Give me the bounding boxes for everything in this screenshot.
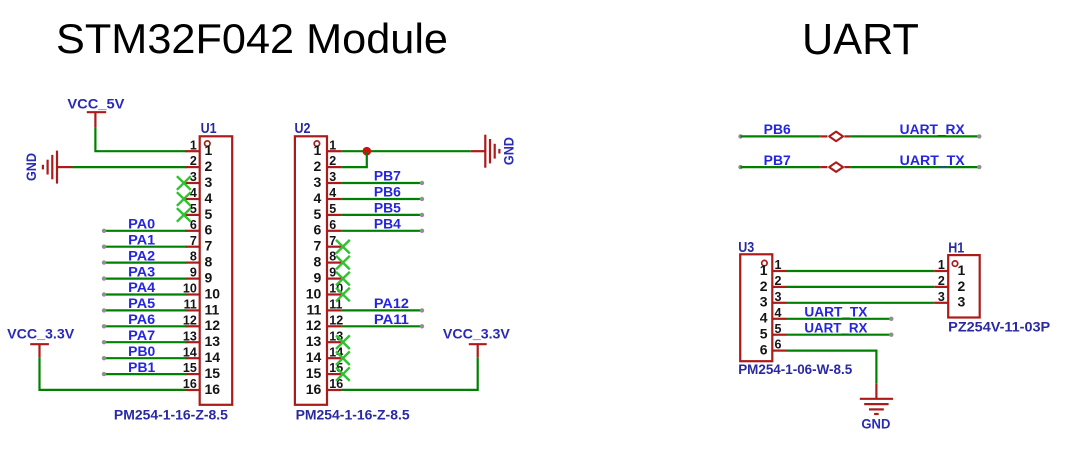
no-connect X on U1 pin 4 xyxy=(177,192,191,206)
connector U3 body xyxy=(740,254,772,361)
svg-text:2: 2 xyxy=(958,278,966,294)
U2 pin 2 xyxy=(314,154,342,174)
svg-text:PM254-1-06-W-8.5: PM254-1-06-W-8.5 xyxy=(738,362,853,377)
svg-text:7: 7 xyxy=(190,234,197,248)
U3 pin 2 xyxy=(760,274,787,294)
wire U2 pin 2 to junction xyxy=(341,151,366,167)
svg-text:12: 12 xyxy=(205,317,221,333)
U1 pin 7 xyxy=(185,234,212,254)
no-connect X on U2 pin 15 xyxy=(336,367,350,381)
svg-text:U2: U2 xyxy=(295,120,311,137)
wire VCC_5V to U1 pin 1 xyxy=(95,127,186,151)
U2 pin 5 xyxy=(314,202,342,222)
U1 pin 12 xyxy=(183,313,220,333)
wire U3 pin 1 to H1 pin 1 xyxy=(787,270,935,272)
svg-text:PA0: PA0 xyxy=(128,217,155,232)
wire net PA1 to U1 pin 7 xyxy=(102,245,187,249)
svg-text:VCC_3.3V: VCC_3.3V xyxy=(443,327,510,342)
net-tie diamond PB7/UART_TX xyxy=(820,162,850,172)
wire net PB1 to U1 pin 15 xyxy=(102,372,187,376)
svg-text:1: 1 xyxy=(958,262,966,278)
svg-text:GND: GND xyxy=(501,137,516,165)
svg-text:6: 6 xyxy=(329,218,336,232)
U2 pin 7 xyxy=(314,234,342,254)
U2 pin 3 xyxy=(314,170,342,190)
svg-text:5: 5 xyxy=(205,206,213,222)
U1 pin 3 xyxy=(185,170,212,190)
svg-text:PB7: PB7 xyxy=(374,169,401,184)
svg-text:STM32F042 Module: STM32F042 Module xyxy=(56,15,448,62)
U1 pin 15 xyxy=(183,361,220,381)
U1 pin 11 xyxy=(184,298,220,318)
svg-text:10: 10 xyxy=(306,285,322,301)
wire net PB4 from U2 pin 6 xyxy=(341,229,424,233)
svg-text:PA7: PA7 xyxy=(128,328,155,343)
U1 pin 4 xyxy=(185,186,212,206)
no-connect X on U2 pin 9 xyxy=(336,272,350,286)
svg-text:9: 9 xyxy=(314,270,322,286)
svg-text:PM254-1-16-Z-8.5: PM254-1-16-Z-8.5 xyxy=(114,408,229,423)
U1 pin 1 indicator circle xyxy=(205,141,210,146)
wire net PB0 to U1 pin 14 xyxy=(102,356,187,360)
svg-text:PB1: PB1 xyxy=(128,360,156,375)
no-connect X on U2 pin 7 xyxy=(336,240,350,254)
svg-text:8: 8 xyxy=(205,254,213,270)
svg-text:PA6: PA6 xyxy=(128,312,155,327)
U3 pin 1 indicator circle xyxy=(762,260,767,265)
svg-text:GND: GND xyxy=(24,153,39,181)
U2 pin 12 xyxy=(306,313,344,333)
svg-text:UART_TX: UART_TX xyxy=(900,153,965,168)
U2 pin 13 xyxy=(306,329,344,349)
svg-text:3: 3 xyxy=(760,294,768,310)
svg-text:3: 3 xyxy=(314,174,322,190)
wire net UART_RX right segment xyxy=(850,134,981,138)
svg-text:5: 5 xyxy=(329,202,336,216)
svg-text:PM254-1-16-Z-8.5: PM254-1-16-Z-8.5 xyxy=(296,408,411,423)
svg-text:PB0: PB0 xyxy=(128,344,155,359)
H1 pin 1 indicator circle xyxy=(952,261,957,266)
svg-text:UART_TX: UART_TX xyxy=(804,305,867,320)
svg-text:1: 1 xyxy=(938,258,945,272)
svg-text:16: 16 xyxy=(205,381,221,397)
svg-text:PB5: PB5 xyxy=(374,201,402,216)
svg-text:2: 2 xyxy=(314,158,322,174)
wire net PA12 from U2 pin 11 xyxy=(341,308,424,312)
power symbol VCC_5V xyxy=(67,96,124,127)
svg-text:6: 6 xyxy=(760,342,768,358)
svg-text:16: 16 xyxy=(306,381,322,397)
wire net PB5 from U2 pin 5 xyxy=(341,213,424,217)
svg-text:PA12: PA12 xyxy=(374,296,409,311)
wire net PB7 left segment xyxy=(738,165,820,169)
U2 pin 9 xyxy=(314,266,342,286)
wire net PA5 to U1 pin 11 xyxy=(102,308,187,312)
svg-text:UART_RX: UART_RX xyxy=(804,320,867,335)
U2 pin 14 xyxy=(306,345,344,365)
svg-text:VCC_3.3V: VCC_3.3V xyxy=(7,327,74,342)
svg-text:14: 14 xyxy=(205,349,221,365)
svg-text:2: 2 xyxy=(205,158,213,174)
svg-text:3: 3 xyxy=(775,290,782,304)
connector U2 body xyxy=(295,136,327,405)
svg-text:6: 6 xyxy=(205,222,213,238)
svg-text:1: 1 xyxy=(329,138,336,152)
wire net PA4 to U1 pin 10 xyxy=(102,292,187,296)
U2 pin 4 xyxy=(314,186,342,206)
svg-text:4: 4 xyxy=(775,306,782,320)
power symbol VCC_3.3V right xyxy=(443,327,510,358)
H1 pin 2 xyxy=(934,274,965,294)
net-tie diamond PB6/UART_RX xyxy=(820,132,850,142)
svg-text:9: 9 xyxy=(205,270,213,286)
svg-text:2: 2 xyxy=(190,154,197,168)
wire VCC_3.3V to U1 pin 16 xyxy=(40,358,187,390)
U1 pin 8 xyxy=(185,250,212,270)
svg-text:6: 6 xyxy=(314,222,322,238)
U2 pin 8 xyxy=(314,250,342,270)
wire net PB6 from U2 pin 4 xyxy=(341,197,424,201)
wire net PA3 to U1 pin 9 xyxy=(102,276,187,280)
wire net PA11 from U2 pin 12 xyxy=(341,324,424,328)
U1 pin 9 xyxy=(185,266,212,286)
svg-text:15: 15 xyxy=(306,365,322,381)
U2 pin 1 indicator circle xyxy=(314,141,319,146)
svg-text:VCC_5V: VCC_5V xyxy=(67,96,124,111)
wire U3 pin 2 to H1 pin 2 xyxy=(787,286,935,288)
junction on GND net xyxy=(363,147,372,156)
U2 pin 16 xyxy=(306,377,344,397)
U2 pin 10 xyxy=(306,282,344,302)
svg-text:12: 12 xyxy=(306,317,322,333)
svg-text:3: 3 xyxy=(958,294,966,310)
svg-text:6: 6 xyxy=(190,218,197,232)
svg-text:PB6: PB6 xyxy=(374,185,401,200)
connector U1 body xyxy=(200,136,233,405)
U3 pin 6 xyxy=(760,338,787,358)
U2 pin 6 xyxy=(314,218,342,238)
wire net PA7 to U1 pin 13 xyxy=(102,340,187,344)
svg-text:15: 15 xyxy=(205,365,221,381)
svg-text:3: 3 xyxy=(329,170,336,184)
wire GND to U1 pin 2 xyxy=(73,166,187,168)
power symbol VCC_3.3V left xyxy=(7,327,74,358)
svg-text:2: 2 xyxy=(775,274,782,288)
svg-text:4: 4 xyxy=(760,310,768,326)
svg-text:4: 4 xyxy=(329,186,336,200)
svg-text:7: 7 xyxy=(205,238,213,254)
connector H1 body xyxy=(948,255,980,317)
ground GND right of U2 xyxy=(471,135,517,168)
svg-text:PB7: PB7 xyxy=(764,153,791,168)
U1 pin 2 xyxy=(185,154,212,174)
svg-text:U1: U1 xyxy=(201,120,217,137)
svg-text:2: 2 xyxy=(760,278,768,294)
svg-text:1: 1 xyxy=(190,138,197,152)
svg-text:PA11: PA11 xyxy=(374,312,410,327)
svg-text:PA4: PA4 xyxy=(128,280,156,295)
svg-text:GND: GND xyxy=(861,416,890,431)
U1 pin 1 xyxy=(185,138,212,158)
wire net PA6 to U1 pin 12 xyxy=(102,324,187,328)
svg-text:1: 1 xyxy=(760,262,768,278)
svg-text:3: 3 xyxy=(938,290,945,304)
U2 pin 11 xyxy=(306,298,342,318)
H1 pin 3 xyxy=(934,290,965,310)
U1 pin 16 xyxy=(183,377,220,397)
U1 pin 13 xyxy=(183,329,220,349)
svg-text:3: 3 xyxy=(205,174,213,190)
ground GND left xyxy=(24,151,72,184)
svg-text:16: 16 xyxy=(183,377,197,391)
U1 pin 5 xyxy=(185,202,212,222)
svg-text:1: 1 xyxy=(314,142,322,158)
svg-text:PA2: PA2 xyxy=(128,248,155,263)
U3 pin 1 xyxy=(760,258,787,278)
svg-text:10: 10 xyxy=(205,285,221,301)
no-connect X on U2 pin 14 xyxy=(336,351,350,365)
svg-text:2: 2 xyxy=(938,274,945,288)
U1 pin 6 xyxy=(185,218,212,238)
no-connect X on U2 pin 13 xyxy=(336,335,350,349)
svg-text:9: 9 xyxy=(190,266,197,280)
no-connect X on U2 pin 10 xyxy=(336,288,350,302)
svg-text:14: 14 xyxy=(306,349,322,365)
wire net PA0 to U1 pin 6 xyxy=(102,229,187,233)
svg-text:8: 8 xyxy=(314,254,322,270)
U1 pin 14 xyxy=(183,345,220,365)
wire U3 pin 6 to GND xyxy=(787,351,877,384)
U1 pin 10 xyxy=(183,282,220,302)
svg-text:5: 5 xyxy=(314,206,322,222)
svg-text:11: 11 xyxy=(306,301,321,317)
svg-text:1: 1 xyxy=(775,258,782,272)
no-connect X on U2 pin 8 xyxy=(336,256,350,270)
svg-text:4: 4 xyxy=(314,190,322,206)
svg-text:11: 11 xyxy=(329,298,342,312)
wire net UART_RX from U3 pin 5 xyxy=(787,333,894,337)
svg-text:13: 13 xyxy=(205,333,221,349)
svg-text:5: 5 xyxy=(760,326,768,342)
wire net PA2 to U1 pin 8 xyxy=(102,260,187,264)
svg-text:PA3: PA3 xyxy=(128,264,155,279)
svg-text:PB6: PB6 xyxy=(764,122,791,137)
svg-text:11: 11 xyxy=(205,301,220,317)
H1 pin 1 xyxy=(934,258,965,278)
U3 pin 4 xyxy=(760,306,787,326)
svg-text:PB4: PB4 xyxy=(374,217,402,232)
U3 pin 3 xyxy=(760,290,787,310)
ground GND bottom xyxy=(860,383,893,431)
wire net PB7 from U2 pin 3 xyxy=(341,181,424,185)
svg-text:UART_RX: UART_RX xyxy=(900,122,965,137)
no-connect X on U1 pin 3 xyxy=(177,176,191,190)
svg-text:PA1: PA1 xyxy=(128,232,156,247)
svg-text:1: 1 xyxy=(205,142,213,158)
wire net PB6 left segment xyxy=(738,134,820,138)
svg-text:PZ254V-11-03P: PZ254V-11-03P xyxy=(948,320,1050,335)
U3 pin 5 xyxy=(760,322,787,342)
wire U2 pin 1 to GND xyxy=(341,150,470,152)
U2 pin 1 xyxy=(314,138,342,158)
wire net UART_TX right segment xyxy=(850,165,981,169)
svg-text:5: 5 xyxy=(775,322,782,336)
U2 pin 15 xyxy=(306,361,344,381)
no-connect X on U1 pin 5 xyxy=(177,208,191,222)
svg-text:8: 8 xyxy=(190,250,197,264)
svg-text:6: 6 xyxy=(775,338,782,352)
wire U3 pin 3 to H1 pin 3 xyxy=(787,302,935,304)
svg-text:13: 13 xyxy=(306,333,322,349)
wire net UART_TX from U3 pin 4 xyxy=(787,317,894,321)
svg-text:7: 7 xyxy=(314,238,322,254)
svg-text:12: 12 xyxy=(329,313,343,327)
svg-text:2: 2 xyxy=(329,154,336,168)
svg-text:4: 4 xyxy=(205,190,213,206)
wire U2 pin 16 to VCC_3.3V xyxy=(341,358,477,390)
svg-text:PA5: PA5 xyxy=(128,296,156,311)
svg-text:UART: UART xyxy=(802,16,919,64)
